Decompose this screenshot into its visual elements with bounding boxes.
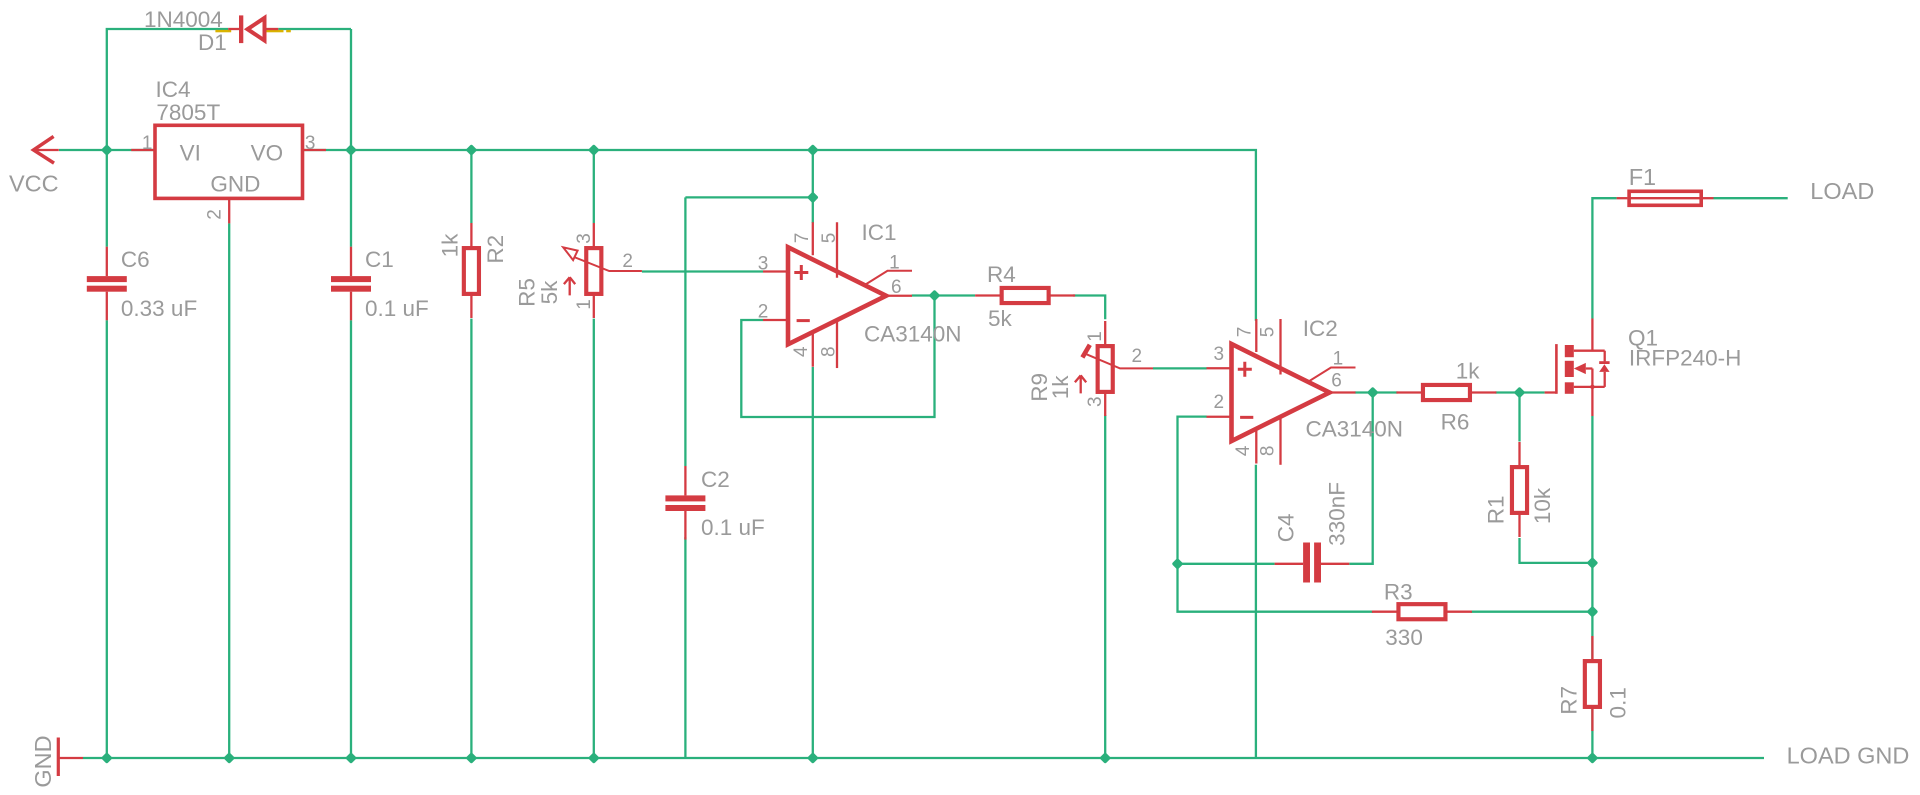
svg-text:0.1 uF: 0.1 uF [701, 515, 765, 540]
svg-text:CA3140N: CA3140N [1306, 417, 1404, 442]
svg-text:LOAD GND: LOAD GND [1787, 743, 1910, 769]
svg-text:3: 3 [758, 254, 769, 275]
svg-text:1: 1 [574, 299, 595, 310]
svg-text:IRFP240-H: IRFP240-H [1629, 346, 1742, 371]
svg-text:3: 3 [305, 133, 316, 154]
svg-text:8: 8 [819, 346, 840, 357]
svg-text:2: 2 [758, 302, 769, 323]
svg-text:7805T: 7805T [156, 100, 220, 125]
svg-text:5k: 5k [988, 306, 1013, 331]
svg-text:3: 3 [1085, 396, 1106, 407]
svg-text:1k: 1k [437, 233, 462, 258]
svg-text:LOAD: LOAD [1810, 178, 1874, 204]
svg-text:1: 1 [1085, 331, 1106, 342]
svg-text:6: 6 [891, 277, 902, 298]
svg-text:1: 1 [1333, 349, 1344, 370]
svg-text:8: 8 [1258, 446, 1279, 457]
svg-text:VO: VO [251, 141, 284, 166]
svg-text:1k: 1k [1456, 359, 1481, 384]
svg-text:2: 2 [622, 251, 633, 272]
svg-text:2: 2 [1132, 346, 1143, 367]
svg-text:7: 7 [792, 233, 813, 244]
svg-text:2: 2 [204, 209, 225, 220]
svg-text:F1: F1 [1629, 164, 1656, 190]
svg-text:330: 330 [1385, 625, 1423, 650]
svg-text:5k: 5k [537, 280, 562, 305]
svg-text:R1: R1 [1484, 496, 1509, 525]
svg-text:C2: C2 [701, 467, 730, 492]
svg-text:C6: C6 [121, 247, 150, 272]
svg-text:R5: R5 [515, 278, 540, 307]
svg-text:1N4004: 1N4004 [144, 7, 223, 32]
svg-text:10k: 10k [1530, 487, 1555, 524]
svg-text:GND: GND [210, 172, 260, 197]
svg-text:7: 7 [1234, 327, 1255, 338]
svg-text:IC1: IC1 [862, 220, 897, 245]
svg-text:4: 4 [791, 346, 812, 357]
svg-text:R6: R6 [1441, 410, 1470, 435]
svg-text:C4: C4 [1274, 514, 1299, 543]
svg-text:CA3140N: CA3140N [864, 322, 962, 347]
svg-text:3: 3 [574, 233, 595, 244]
svg-text:C1: C1 [365, 247, 394, 272]
svg-text:1: 1 [889, 253, 900, 274]
svg-text:5: 5 [819, 233, 840, 244]
svg-text:0.1 uF: 0.1 uF [365, 296, 429, 321]
svg-text:330nF: 330nF [1324, 482, 1349, 546]
svg-text:5: 5 [1258, 327, 1279, 338]
svg-text:0.33 uF: 0.33 uF [121, 296, 197, 321]
svg-text:VCC: VCC [9, 171, 59, 197]
svg-text:GND: GND [30, 735, 56, 787]
svg-text:6: 6 [1331, 371, 1342, 392]
svg-text:IC2: IC2 [1303, 316, 1338, 341]
svg-text:0.1: 0.1 [1605, 687, 1630, 718]
svg-text:D1: D1 [198, 30, 227, 55]
svg-text:VI: VI [180, 141, 201, 166]
svg-text:R3: R3 [1384, 580, 1413, 605]
svg-text:IC4: IC4 [156, 77, 191, 102]
svg-text:3: 3 [1214, 344, 1225, 365]
svg-text:2: 2 [1214, 392, 1225, 413]
svg-text:1: 1 [142, 133, 153, 154]
svg-text:R4: R4 [987, 262, 1016, 287]
svg-text:4: 4 [1233, 445, 1254, 456]
svg-text:R2: R2 [483, 235, 508, 264]
svg-text:1k: 1k [1048, 375, 1073, 400]
svg-text:R7: R7 [1557, 686, 1582, 715]
